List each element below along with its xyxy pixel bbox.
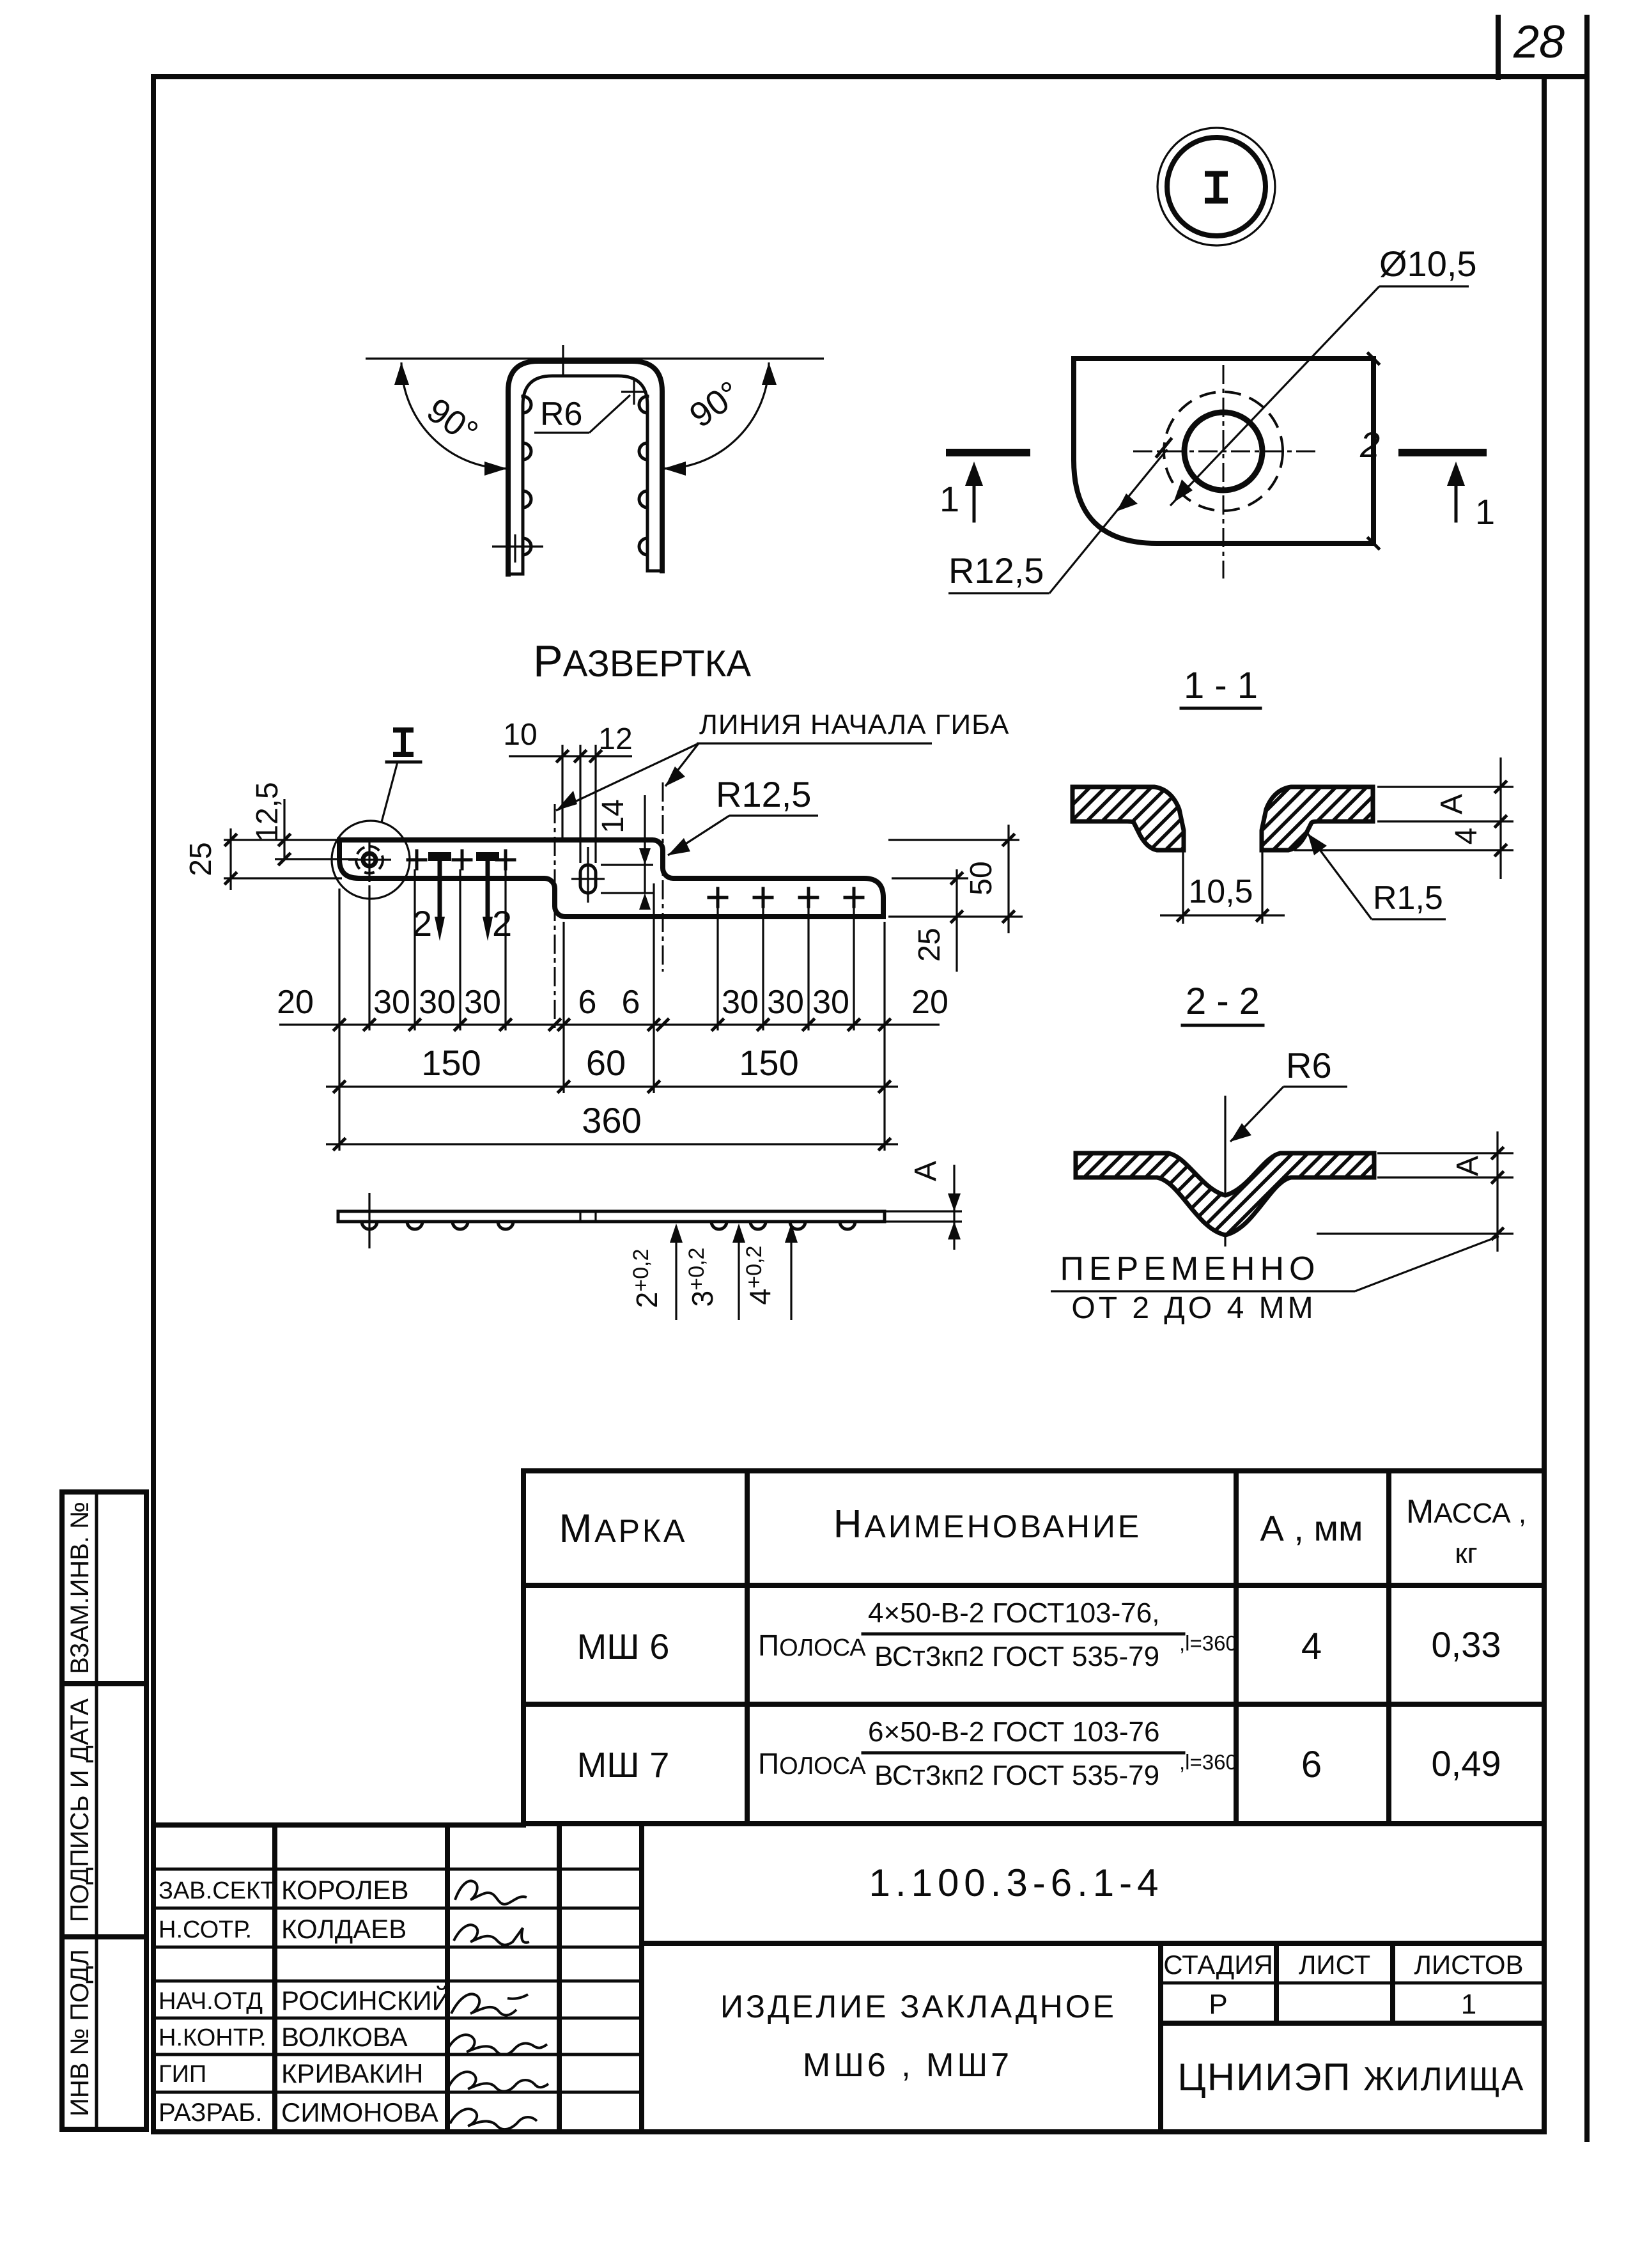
svg-text:60: 60 xyxy=(586,1043,626,1083)
svg-text:1.100.3-6.1-4: 1.100.3-6.1-4 xyxy=(869,1861,1164,1904)
title Razvertka xyxy=(533,636,751,686)
svg-text:1 - 1: 1 - 1 xyxy=(1184,665,1258,706)
svg-text:2: 2 xyxy=(492,903,512,944)
stadia list listov xyxy=(1161,1943,1544,2023)
svg-text:ИЗДЕЛИЕ ЗАКЛАДНОЕ: ИЗДЕЛИЕ ЗАКЛАДНОЕ xyxy=(720,1989,1117,2024)
svg-text:ЦНИИЭП ЖИЛИЩА: ЦНИИЭП ЖИЛИЩА xyxy=(1177,2056,1524,2099)
R12,5 label plate xyxy=(948,449,1167,593)
svg-text:6: 6 xyxy=(1301,1744,1322,1785)
svg-text:50: 50 xyxy=(964,861,998,895)
outer sheet edge line right xyxy=(1584,17,1590,2140)
thickness dim 2 xyxy=(1359,353,1380,548)
svg-text:СИМОНОВА: СИМОНОВА xyxy=(281,2097,438,2127)
dim 25 right xyxy=(892,869,968,972)
svg-text:4: 4 xyxy=(1301,1626,1322,1667)
page number box 28 xyxy=(1498,17,1587,77)
R6 radius centre cross xyxy=(621,380,647,405)
row1 labels xyxy=(277,984,948,1021)
svg-text:30: 30 xyxy=(464,984,501,1021)
svg-text:,l=360: ,l=360 xyxy=(1179,1750,1237,1774)
svg-text:0,33: 0,33 xyxy=(1432,1624,1501,1665)
names xyxy=(281,1875,451,2127)
svg-text:30: 30 xyxy=(722,984,759,1021)
svg-text:ГИП: ГИП xyxy=(159,2061,206,2088)
svg-text:НАЧ.ОТД: НАЧ.ОТД xyxy=(159,1988,263,2015)
svg-text:МШ 7: МШ 7 xyxy=(577,1744,670,1785)
svg-text:1: 1 xyxy=(1461,1989,1476,2020)
dim 12,5 left xyxy=(251,782,358,864)
centrelines xyxy=(1133,365,1318,579)
svg-text:кг: кг xyxy=(1455,1538,1477,1569)
svg-text:360: 360 xyxy=(582,1100,641,1140)
hole symbol left end xyxy=(348,838,391,882)
sheet frame xyxy=(153,77,1544,2132)
svg-text:10: 10 xyxy=(503,718,537,752)
section 2-2 material xyxy=(1076,1153,1374,1235)
svg-text:ВСт3кп2 ГОСТ 535-79: ВСт3кп2 ГОСТ 535-79 xyxy=(874,1641,1159,1672)
svg-text:12: 12 xyxy=(598,722,632,756)
dimple centre cross bottom left xyxy=(492,534,543,563)
dim A edge view xyxy=(885,1161,962,1250)
svg-text:СТАДИЯ: СТАДИЯ xyxy=(1163,1950,1273,1980)
section mark 1 right xyxy=(1398,453,1495,532)
90 degree arc left xyxy=(394,362,507,476)
svg-text:30: 30 xyxy=(373,984,410,1021)
signatures xyxy=(447,1881,548,2129)
svg-text:14: 14 xyxy=(596,799,630,833)
svg-text:ВСт3кп2 ГОСТ 535-79: ВСт3кп2 ГОСТ 535-79 xyxy=(874,1760,1159,1791)
left material piece xyxy=(1072,787,1184,850)
svg-text:150: 150 xyxy=(739,1043,798,1083)
dim 50 right xyxy=(888,825,1023,933)
svg-text:КОРОЛЕВ: КОРОЛЕВ xyxy=(281,1875,409,1905)
bend line 2 xyxy=(662,782,664,972)
dim A section 2-2 xyxy=(1317,1131,1513,1252)
svg-text:R6: R6 xyxy=(540,396,582,433)
svg-text:Ø10,5: Ø10,5 xyxy=(1379,244,1477,284)
R6 label and leader xyxy=(534,395,630,433)
dimple crosses left strip xyxy=(408,851,515,869)
svg-text:4: 4 xyxy=(1450,828,1483,845)
svg-text:МАССА ,: МАССА , xyxy=(1406,1493,1526,1530)
dimples left leg xyxy=(523,396,531,555)
svg-text:10,5: 10,5 xyxy=(1188,873,1253,910)
svg-text:ВОЛКОВА: ВОЛКОВА xyxy=(281,2022,408,2052)
svg-text:,l=360: ,l=360 xyxy=(1179,1631,1237,1655)
hole xyxy=(1164,392,1283,511)
svg-text:28: 28 xyxy=(1513,17,1565,68)
label R12,5 on pattern xyxy=(668,774,818,855)
construction line xyxy=(366,345,824,376)
svg-text:6×50-В-2 ГОСТ 103-76: 6×50-В-2 ГОСТ 103-76 xyxy=(868,1716,1159,1748)
dim 25 left xyxy=(184,828,342,890)
strip outline xyxy=(338,1211,885,1222)
bump depth dims xyxy=(629,1223,798,1320)
svg-text:НАИМЕНОВАНИЕ: НАИМЕНОВАНИЕ xyxy=(833,1502,1142,1546)
svg-text:1: 1 xyxy=(940,479,959,519)
row1 ticks xyxy=(334,1020,890,1030)
centreline dimple xyxy=(1224,1096,1226,1247)
svg-text:25: 25 xyxy=(913,928,947,961)
right material piece xyxy=(1262,787,1373,850)
U channel outline xyxy=(508,361,662,574)
section title 2-2 xyxy=(1182,981,1263,1025)
svg-text:20: 20 xyxy=(277,984,314,1021)
svg-text:МШ6 , МШ7: МШ6 , МШ7 xyxy=(803,2047,1012,2084)
svg-text:ОТ 2 ДО 4 ММ: ОТ 2 ДО 4 ММ xyxy=(1071,1291,1316,1325)
dim 10 / 12 top xyxy=(503,718,632,863)
svg-text:20: 20 xyxy=(911,984,948,1021)
svg-text:4×50-В-2 ГОСТ103-76,: 4×50-В-2 ГОСТ103-76, xyxy=(868,1597,1159,1629)
svg-text:2: 2 xyxy=(1359,424,1380,465)
svg-text:КРИВАКИН: КРИВАКИН xyxy=(281,2058,423,2088)
dims A and 4 right xyxy=(1294,757,1513,879)
svg-text:1: 1 xyxy=(1475,492,1495,532)
dim 14 slot xyxy=(596,795,653,910)
svg-text:А , мм: А , мм xyxy=(1260,1508,1363,1548)
svg-text:А: А xyxy=(1435,794,1469,814)
pattern outline xyxy=(339,840,883,917)
organisation xyxy=(1177,2056,1524,2099)
dimension row 2 xyxy=(326,1043,898,1092)
section mark 2 left xyxy=(412,857,451,944)
dimension row 1 xyxy=(279,869,940,1151)
dimension row 3 xyxy=(326,1100,898,1149)
svg-text:А: А xyxy=(1451,1156,1485,1176)
title area xyxy=(720,1943,1161,2132)
bumps below strip xyxy=(362,1222,855,1229)
slot xyxy=(571,847,605,903)
svg-text:ЛИСТОВ: ЛИСТОВ xyxy=(1414,1950,1523,1980)
svg-text:Н.КОНТР.: Н.КОНТР. xyxy=(159,2024,267,2051)
role labels xyxy=(159,1877,279,2127)
svg-text:ЛИСТ: ЛИСТ xyxy=(1299,1950,1370,1980)
svg-text:25: 25 xyxy=(184,842,218,876)
svg-text:30: 30 xyxy=(812,984,849,1021)
svg-text:R6: R6 xyxy=(1286,1045,1332,1085)
svg-text:КОЛДАЕВ: КОЛДАЕВ xyxy=(281,1914,406,1944)
label liniya nachala giba xyxy=(556,709,1009,811)
svg-text:МШ 6: МШ 6 xyxy=(577,1626,670,1666)
bend line 1 xyxy=(554,804,556,1030)
svg-text:12,5: 12,5 xyxy=(251,782,284,841)
detail circle I on pattern xyxy=(332,730,421,899)
svg-text:R1,5: R1,5 xyxy=(1373,880,1443,917)
svg-text:ПОДПИСЬ И ДАТА: ПОДПИСЬ И ДАТА xyxy=(66,1698,94,1922)
R1,5 label xyxy=(1308,834,1446,919)
svg-text:МАРКА: МАРКА xyxy=(559,1507,688,1551)
section mark 1 left xyxy=(940,453,1030,521)
section mark 2 right xyxy=(476,857,512,944)
svg-text:Р: Р xyxy=(1209,1989,1227,2020)
table headers xyxy=(559,1493,1526,1569)
svg-text:А: А xyxy=(909,1161,943,1181)
dia 10,5 label xyxy=(1157,244,1477,506)
svg-text:РОСИНСКИЙ: РОСИНСКИЙ xyxy=(281,1985,451,2016)
dimples right leg xyxy=(639,396,647,555)
document number xyxy=(642,1861,1544,1943)
svg-text:6: 6 xyxy=(622,984,640,1021)
row MSh7 xyxy=(577,1716,1501,1791)
svg-text:2 - 2: 2 - 2 xyxy=(1186,981,1260,1022)
svg-text:ЗАВ.СЕКТ.: ЗАВ.СЕКТ. xyxy=(159,1877,279,1904)
svg-text:Н.СОТР.: Н.СОТР. xyxy=(159,1916,252,1943)
left margin stamp strip xyxy=(62,1492,146,2129)
svg-text:ВЗАМ.ИНВ. №: ВЗАМ.ИНВ. № xyxy=(66,1502,94,1674)
section title 1-1 xyxy=(1181,665,1260,708)
svg-text:ЛИНИЯ НАЧАЛА ГИБА: ЛИНИЯ НАЧАЛА ГИБА xyxy=(699,709,1009,740)
svg-text:150: 150 xyxy=(421,1043,481,1083)
svg-text:30: 30 xyxy=(767,984,804,1021)
R6 label xyxy=(1230,1045,1347,1142)
svg-text:ИНВ № ПОДЛ: ИНВ № ПОДЛ xyxy=(66,1949,94,2117)
dimple crosses right strip xyxy=(709,889,863,906)
dim 10,5 xyxy=(1160,834,1285,924)
hole centreline xyxy=(368,1193,370,1248)
svg-text:30: 30 xyxy=(419,984,456,1021)
peremenno label xyxy=(1051,1236,1499,1325)
svg-text:6: 6 xyxy=(578,984,597,1021)
svg-text:R12,5: R12,5 xyxy=(948,550,1044,591)
svg-text:0,49: 0,49 xyxy=(1432,1743,1501,1783)
svg-text:R12,5: R12,5 xyxy=(716,774,811,814)
svg-text:РАЗВЕРТКА: РАЗВЕРТКА xyxy=(533,636,751,686)
svg-text:ПЕРЕМЕННО: ПЕРЕМЕННО xyxy=(1060,1250,1320,1287)
svg-text:РАЗРАБ.: РАЗРАБ. xyxy=(159,2099,262,2127)
90 degree arc right xyxy=(663,362,777,476)
plate outline xyxy=(1074,359,1374,543)
row MSh6 xyxy=(577,1597,1501,1672)
